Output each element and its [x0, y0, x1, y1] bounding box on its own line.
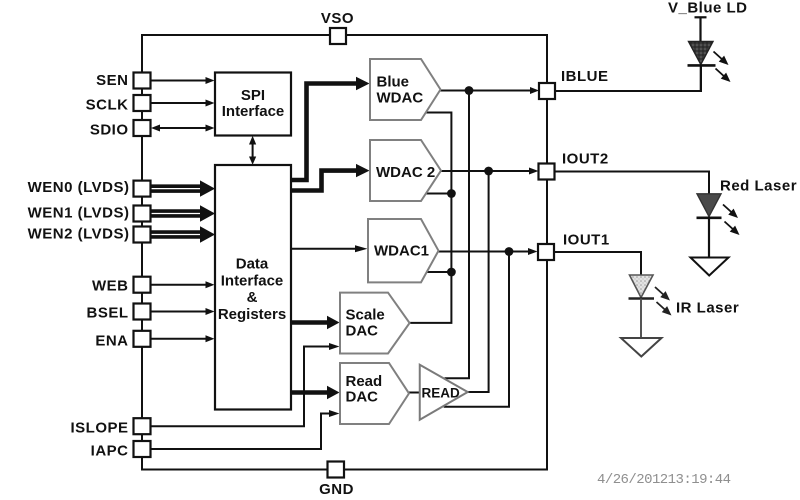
node: junction dot on IOUT1 line — [505, 247, 514, 256]
svg-text:DAC: DAC — [346, 389, 379, 406]
pin SCLK — [134, 95, 151, 111]
wire: IBLUE monitor line down to READ upper slope — [445, 91, 470, 379]
wire: thick Data Interface to Scale DAC — [291, 320, 328, 325]
wire: IOUT2 pin to red laser anode — [554, 172, 709, 195]
block: Data Interface and Registers — [215, 165, 291, 410]
wire: IOUT1 pin to IR laser anode — [554, 252, 641, 275]
svg-text:SCLK: SCLK — [86, 97, 129, 114]
pin IOUT1 — [538, 244, 554, 260]
block: WDAC 2 — [370, 140, 441, 201]
svg-text:Scale: Scale — [346, 307, 385, 324]
svg-text:WDAC 2: WDAC 2 — [376, 164, 435, 181]
wire: SDIO bidirectional to SPI — [158, 127, 207, 129]
pin IBLUE — [539, 83, 555, 99]
chip outline (main IC boundary box) — [142, 35, 547, 470]
block: Blue WDAC — [370, 59, 441, 120]
pin ENA — [134, 331, 151, 347]
wire: SPI to Data Interface bidirectional arrow — [252, 143, 254, 158]
node: junction dot on IBLUE line — [465, 86, 474, 95]
wire: WEN1 LVDS double line to Data Interface — [151, 205, 216, 221]
svg-text:SDIO: SDIO — [90, 122, 129, 139]
svg-text:WEB: WEB — [92, 278, 129, 295]
svg-text:SEN: SEN — [96, 72, 128, 89]
svg-text:Interface: Interface — [221, 273, 284, 290]
wire: WEB to Data Interface — [151, 284, 207, 286]
wire: thick Data Interface to Read DAC — [291, 390, 328, 395]
wire: WEN2 LVDS double line to Data Interface — [151, 226, 216, 242]
wire: WDAC1 output to IOUT1 pin — [438, 251, 529, 253]
wire: BSEL to Data Interface — [151, 311, 207, 313]
wire: IBLUE pin to blue laser cathode — [555, 65, 701, 91]
svg-text:V_Blue LD: V_Blue LD — [668, 0, 748, 17]
pin BSEL — [134, 304, 151, 320]
svg-text:WEN0 (LVDS): WEN0 (LVDS) — [28, 179, 130, 196]
svg-text:Blue: Blue — [377, 74, 410, 91]
wire: SEN to SPI — [151, 80, 207, 82]
wire: WEN0 LVDS double line to Data Interface — [151, 180, 216, 196]
svg-text:WDAC: WDAC — [377, 90, 424, 107]
svg-text:Read: Read — [346, 373, 383, 390]
wire: IAPC to Read DAC lower input — [151, 414, 331, 450]
svg-text:SPI: SPI — [241, 87, 265, 104]
pin IOUT2 — [539, 164, 555, 180]
svg-text:IAPC: IAPC — [91, 442, 129, 459]
svg-text:Data: Data — [236, 256, 269, 273]
node: dot scale bus / WDAC2 tap — [447, 189, 456, 198]
laser diode: IR Laser — [621, 275, 739, 357]
svg-text:IOUT1: IOUT1 — [563, 232, 610, 249]
block: Scale DAC — [340, 293, 410, 354]
svg-text:WEN2 (LVDS): WEN2 (LVDS) — [28, 226, 130, 243]
wire: Read DAC output to READ amp input — [409, 392, 420, 394]
block: Read DAC — [340, 363, 409, 424]
svg-text:&: & — [247, 289, 258, 306]
laser diode: Red Laser — [691, 178, 798, 276]
svg-text:DAC: DAC — [346, 323, 379, 340]
pin WEN1 — [134, 206, 151, 222]
wire: WDAC 2 output to IOUT2 pin — [441, 170, 530, 172]
wire: ENA to Data Interface — [151, 338, 207, 340]
wire: WDAC1 lower tap — [427, 271, 452, 273]
block: WDAC1 — [368, 219, 439, 282]
svg-text:GND: GND — [319, 481, 354, 498]
pin WEN0 — [134, 181, 151, 197]
wire: ISLOPE to Scale DAC lower input — [151, 347, 331, 427]
pin VSO — [330, 28, 346, 44]
svg-text:IBLUE: IBLUE — [561, 68, 609, 85]
ground: IR laser — [621, 338, 662, 357]
wire: thick Data Interface to Blue WDAC — [291, 84, 357, 181]
wire: SCLK to SPI — [151, 102, 207, 104]
wire: thick Data Interface to WDAC 2 — [291, 171, 357, 191]
svg-text:IR Laser: IR Laser — [676, 300, 739, 317]
wire: Data Interface to WDAC1 (thin) — [291, 248, 356, 250]
svg-text:READ: READ — [422, 386, 461, 401]
pin IAPC — [134, 441, 151, 457]
block: SPI Interface U1 — [215, 73, 291, 136]
svg-text:ISLOPE: ISLOPE — [70, 420, 128, 437]
svg-text:BSEL: BSEL — [86, 305, 128, 322]
wire: WDAC 2 lower tap — [426, 193, 451, 195]
svg-text:IOUT2: IOUT2 — [562, 151, 609, 168]
wire: scale bus vertical line feeding WDAC lower inputs — [410, 113, 452, 323]
wire: IOUT1 monitor line down to READ lower slope — [444, 252, 509, 407]
wire: IOUT2 monitor line down to READ output point — [468, 171, 489, 392]
pin WEN2 — [134, 227, 151, 243]
pin ISLOPE — [134, 418, 151, 434]
pin WEB — [134, 277, 151, 293]
node: dot scale bus / WDAC1 tap — [447, 268, 456, 277]
svg-text:Registers: Registers — [218, 306, 286, 323]
pin SDIO — [134, 120, 151, 136]
node: junction dot on IOUT2 line — [484, 167, 493, 176]
svg-text:ENA: ENA — [95, 332, 128, 349]
svg-text:VSO: VSO — [321, 10, 354, 27]
svg-text:Red Laser: Red Laser — [720, 178, 797, 195]
svg-text:4/26/201213:19:44: 4/26/201213:19:44 — [597, 472, 731, 488]
laser diode: V_Blue LD — [668, 0, 748, 91]
svg-text:WDAC1: WDAC1 — [374, 243, 429, 260]
ground: red laser — [691, 258, 729, 276]
pin GND — [328, 462, 345, 478]
op-amp: READ buffer — [420, 365, 468, 420]
pin SEN — [134, 73, 151, 89]
wire: Blue WDAC output to IBLUE pin — [440, 90, 531, 92]
svg-text:WEN1 (LVDS): WEN1 (LVDS) — [28, 205, 130, 222]
svg-text:Interface: Interface — [222, 103, 285, 120]
